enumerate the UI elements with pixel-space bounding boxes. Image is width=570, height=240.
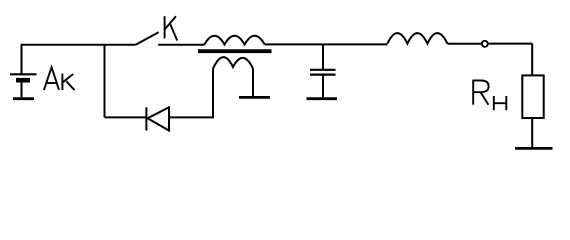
node junction vertical at x=104 (top wire to bottom wire) [104, 45, 106, 118]
capacitor C1 bottom plate [310, 73, 336, 75]
diode VD1 triangle (anode, pointing left) [148, 107, 170, 130]
wire bottom from junction to diode cathode [105, 116, 147, 118]
capacitor C1 top plate [310, 69, 336, 71]
wire left vertical from top wire down to battery [21, 44, 23, 74]
diode VD1 cathode bar [145, 107, 147, 130]
ground bar under battery [13, 97, 34, 100]
node output terminal (open circle) [482, 41, 488, 47]
ground bar under capacitor [307, 97, 338, 100]
wire capacitor bottom lead [322, 76, 324, 98]
wire resistor bottom lead [531, 118, 533, 147]
label K (switch designation) [165, 16, 178, 40]
transformer T1 secondary winding (2 turns) [213, 57, 253, 68]
resistor Rn body [522, 75, 543, 118]
transformer T1 core (thick bar) [198, 49, 272, 53]
battery Ak short thick plate (negative) [16, 78, 30, 83]
ground bar under transformer secondary [239, 96, 270, 99]
wire secondary left lead down to bottom wire [212, 69, 214, 118]
switch K blade [136, 32, 159, 45]
wire right vertical down to resistor [531, 44, 533, 76]
label Ak (battery designation) [44, 67, 75, 90]
wire secondary right lead down to ground [252, 69, 254, 97]
wire battery lower lead [21, 82, 23, 97]
wire capacitor top lead [322, 44, 324, 69]
label Rn (load resistor designation) [473, 80, 506, 111]
wire from terminal to right corner [488, 43, 532, 45]
inductor L1 winding (3 turns) [387, 33, 447, 44]
wire from diode anode to secondary left lead [169, 116, 214, 118]
wire from switch right contact to transformer primary [158, 44, 204, 46]
transformer T1 primary winding (3 turns) [204, 36, 264, 45]
battery Ak long plate (positive) [10, 73, 37, 75]
wire from inductor to output terminal [447, 43, 481, 45]
wire top from transformer primary to inductor [265, 43, 388, 45]
wire top-left horizontal from battery corner to switch left contact [22, 44, 136, 46]
ground bar under resistor [515, 147, 553, 150]
